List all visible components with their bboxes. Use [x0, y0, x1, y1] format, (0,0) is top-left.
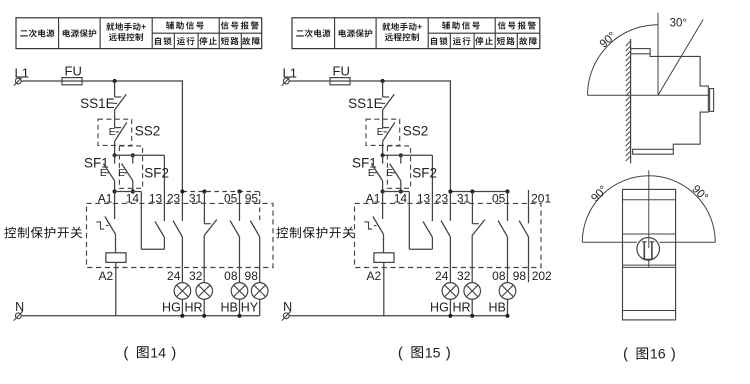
- svg-text:08: 08: [492, 269, 506, 283]
- device body divider 3 (fig16 front): [623, 264, 676, 266]
- wire L1 to fuse: [289, 80, 330, 82]
- node N bus junctions: [448, 314, 509, 318]
- svg-text:HR: HR: [185, 301, 203, 315]
- svg-text:E: E: [368, 168, 375, 179]
- svg-text:SS1E: SS1E: [80, 96, 115, 111]
- node SS2 output junction: [113, 153, 135, 157]
- svg-text:): ): [671, 346, 676, 363]
- contact 95-98 fault (fig15): [519, 221, 528, 283]
- svg-text:16: 16: [650, 347, 666, 363]
- wire strap A1-14: [115, 192, 142, 250]
- node SF output junction: [381, 189, 403, 193]
- svg-text:HB: HB: [221, 301, 238, 315]
- device bottom flange (fig16 side): [633, 149, 674, 154]
- svg-text:32: 32: [457, 269, 471, 283]
- switch SS1E (fig14): [80, 81, 126, 119]
- lamp HR (fig14): [185, 283, 213, 316]
- contact 13-14 self-hold (fig15): [409, 221, 432, 249]
- svg-text:24: 24: [167, 269, 181, 283]
- node SF output junction: [113, 189, 135, 193]
- svg-text:SF2: SF2: [144, 165, 169, 180]
- knob handle (fig16 front): [642, 242, 655, 259]
- svg-text:SS1E: SS1E: [348, 96, 383, 111]
- lamp HR (fig15): [453, 283, 481, 316]
- svg-text:(: (: [623, 346, 628, 363]
- switch SS1E (fig15): [348, 81, 394, 119]
- svg-text:98: 98: [513, 269, 527, 283]
- wire coil to N: [115, 262, 117, 315]
- svg-text:E: E: [109, 127, 116, 138]
- enclosure CPS dashed box (fig15): [355, 203, 542, 267]
- label 90deg left (fig16 front): [589, 184, 610, 205]
- svg-text:FU: FU: [65, 64, 82, 79]
- device body divider 4 (fig16 front): [623, 266, 676, 268]
- svg-text:A2: A2: [367, 269, 382, 283]
- label 90deg (fig16 side): [598, 30, 619, 51]
- contact 31-32 stop (fig15): [472, 192, 485, 283]
- svg-text:98: 98: [245, 269, 259, 283]
- table cell 短路 (fig14): [221, 37, 239, 45]
- enclosure CPS dashed box (fig14): [87, 203, 274, 267]
- device body (fig16 front): [623, 189, 676, 320]
- switch SS2 (fig15): [377, 119, 428, 155]
- pushbutton SF2 (fig14): [118, 155, 169, 191]
- wire feed right vertical: [449, 80, 451, 221]
- node junction at FU/SS1E: [113, 79, 117, 83]
- wire signal feed (dashed): [182, 192, 260, 224]
- wire 201 stub: [528, 190, 530, 223]
- contact 31-32 stop (fig14): [204, 192, 217, 283]
- wire fuse to right corner: [350, 80, 450, 82]
- contact A1 main (fig14): [96, 192, 115, 253]
- svg-text:(: (: [398, 344, 403, 361]
- lamp HG (fig15): [430, 283, 459, 316]
- pushbutton SF2 (fig15): [386, 155, 437, 191]
- svg-text:): ): [171, 344, 176, 361]
- wire N bus: [21, 315, 259, 317]
- coil A1-A2 (fig15): [374, 253, 394, 263]
- node junction at FU/SS1E: [381, 79, 385, 83]
- table cell 信号报警 (fig14): [221, 21, 259, 29]
- fuse FU (fig14): [62, 64, 82, 85]
- svg-text:E: E: [100, 168, 107, 179]
- terminal L1 (fig14): [14, 65, 29, 85]
- table cell 故障 (fig14): [242, 37, 260, 45]
- wire junction to 13 branch: [383, 155, 433, 221]
- pushbutton SF1 (fig15): [352, 155, 383, 191]
- node SS2 output junction: [381, 153, 403, 157]
- svg-text:): ): [446, 344, 451, 361]
- wire junction to 13 branch: [115, 155, 165, 221]
- switch SS2 (fig14): [109, 119, 160, 155]
- lamp HB (fig15): [489, 283, 516, 316]
- panel mounting plate (fig16 side): [626, 39, 631, 163]
- svg-text:15: 15: [425, 345, 441, 361]
- svg-text:14: 14: [150, 345, 166, 361]
- enclosure SS2 dashed box (fig14): [98, 119, 132, 145]
- device body divider 5 (fig16 front): [623, 310, 676, 312]
- contact 23-24 run (fig14): [173, 221, 182, 283]
- dimension 30deg ray (fig16 side): [658, 20, 703, 96]
- lamp HY (fig14): [241, 283, 268, 316]
- svg-text:E: E: [118, 168, 125, 179]
- knob circle (fig16 front): [637, 238, 660, 261]
- svg-text:08: 08: [224, 269, 238, 283]
- svg-text:(: (: [123, 344, 128, 361]
- coil A1-A2 (fig14): [106, 253, 126, 263]
- svg-text:HR: HR: [453, 301, 471, 315]
- wire signal feed (solid): [450, 191, 507, 193]
- caption 图14: [123, 344, 176, 361]
- table cell 二次电源 (fig14): [20, 29, 54, 37]
- table cell 辅助信号 (fig14): [166, 21, 204, 29]
- caption 图16: [623, 346, 676, 363]
- svg-text:A2: A2: [99, 269, 114, 283]
- wire coil to N: [383, 262, 385, 315]
- terminal L1 (fig15): [282, 65, 297, 85]
- wire L1 to fuse: [21, 80, 62, 82]
- contact 95-98 fault (fig14): [250, 221, 259, 283]
- table cell 运行 (fig14): [177, 37, 195, 45]
- wire N bus: [289, 315, 507, 317]
- node feed junctions: [180, 189, 241, 193]
- terminal N (fig14): [14, 300, 24, 321]
- contact 13-14 self-hold (fig14): [141, 221, 164, 249]
- wire strap A1-14: [383, 192, 410, 250]
- wire fuse to right corner: [82, 80, 182, 82]
- svg-text:HB: HB: [489, 301, 506, 315]
- table cell 二次电源 (fig15): [296, 29, 330, 37]
- terminal N (fig15): [282, 300, 292, 321]
- dimension baseline (fig16 front): [582, 241, 715, 243]
- svg-text:HG: HG: [162, 301, 181, 315]
- enclosure SF2 dashed box (fig15): [387, 146, 410, 188]
- label 控制保护开关 (fig14): [4, 227, 82, 239]
- svg-text:SF2: SF2: [412, 165, 437, 180]
- table cell 辅助信号 (fig15): [442, 21, 480, 29]
- device body profile (fig16 side): [650, 54, 708, 150]
- wire feed right vertical: [181, 80, 183, 221]
- table cell 停止 (fig14): [199, 37, 217, 45]
- device knob side (fig16 side): [710, 89, 714, 112]
- dimension arc 90 (fig16 side): [588, 25, 659, 96]
- table cell 自锁 (fig14): [155, 37, 172, 45]
- svg-text:HG: HG: [430, 301, 449, 315]
- svg-text:24: 24: [435, 269, 449, 283]
- table cell 停止 (fig15): [475, 37, 493, 45]
- table cell 就地手动+远程控制 (fig14): [106, 23, 146, 41]
- contact A1 main (fig15): [364, 192, 383, 253]
- fuse FU (fig15): [330, 64, 350, 85]
- table cell 电源保护 (fig14): [63, 29, 96, 37]
- table cell 信号报警 (fig15): [498, 21, 536, 29]
- device body divider 1 (fig16 front): [623, 199, 676, 201]
- enclosure SF2 dashed box (fig14): [119, 146, 142, 188]
- table cell 自锁 (fig15): [431, 37, 448, 45]
- svg-text:E: E: [377, 127, 384, 138]
- node feed junctions: [448, 189, 509, 193]
- svg-text:E: E: [386, 168, 393, 179]
- table cell 就地手动+远程控制 (fig15): [382, 23, 422, 41]
- svg-text:SS2: SS2: [403, 123, 429, 138]
- centerline (fig16 front): [648, 170, 650, 267]
- svg-text:SS2: SS2: [135, 123, 161, 138]
- svg-text:202: 202: [532, 269, 552, 283]
- lamp HG (fig14): [162, 283, 191, 316]
- table cell 运行 (fig15): [453, 37, 471, 45]
- label 90deg right (fig16 front): [689, 183, 710, 204]
- device body divider 2 (fig16 front): [623, 233, 676, 235]
- table cell 故障 (fig15): [519, 37, 537, 45]
- caption 图15: [398, 344, 451, 361]
- dimension baseline (fig16 side): [588, 94, 710, 96]
- contact 05-08 short-circuit (fig15): [498, 192, 507, 283]
- device top flange (fig16 side): [631, 49, 651, 54]
- dimension vertical (fig16 side): [657, 13, 659, 95]
- svg-text:HY: HY: [241, 301, 259, 315]
- table header frame (fig14): [16, 18, 262, 49]
- label 控制保护开关 (fig15): [276, 227, 354, 239]
- enclosure SS2 dashed box (fig15): [366, 119, 400, 145]
- table cell 电源保护 (fig15): [339, 29, 373, 37]
- svg-text:FU: FU: [333, 64, 350, 79]
- lamp HB (fig14): [221, 283, 248, 316]
- contact 23-24 run (fig15): [441, 221, 450, 283]
- dimension semicircle 90+90 (fig16 front): [582, 176, 715, 243]
- contact 05-08 short-circuit (fig14): [230, 192, 239, 283]
- svg-text:30°: 30°: [670, 18, 687, 30]
- table cell 短路 (fig15): [497, 37, 515, 45]
- table header frame (fig15): [292, 18, 540, 49]
- pushbutton SF1 (fig14): [84, 155, 115, 191]
- node N bus junctions: [180, 314, 241, 318]
- svg-text:32: 32: [189, 269, 203, 283]
